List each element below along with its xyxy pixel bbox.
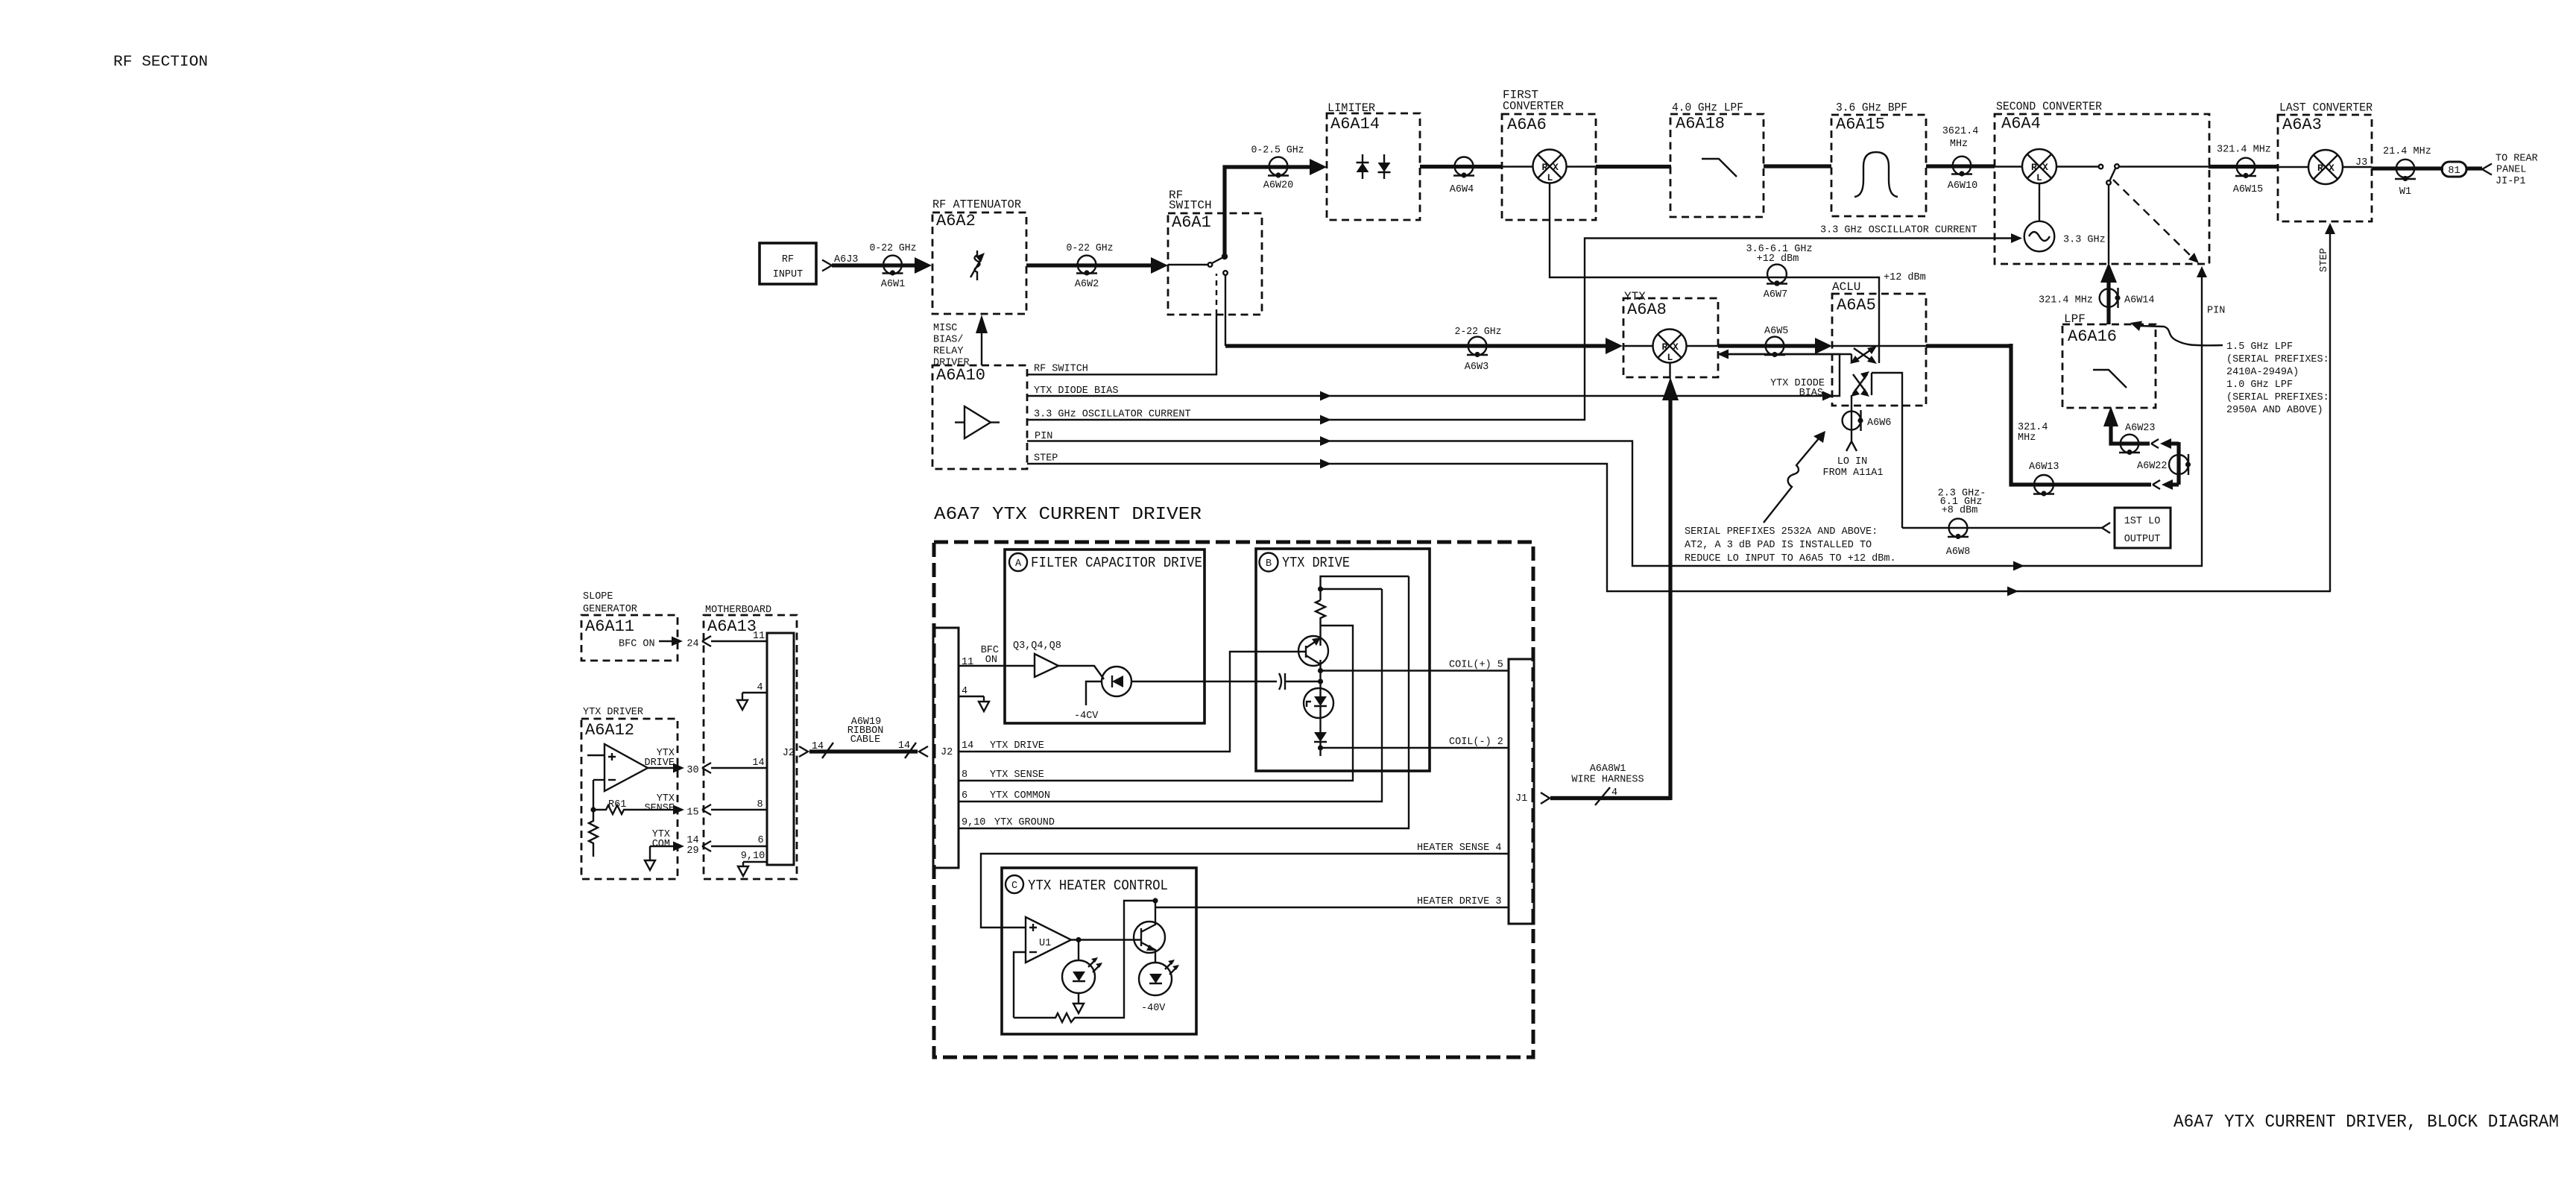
svg-text:6: 6 — [757, 835, 763, 846]
svg-text:(SERIAL PREFIXES:: (SERIAL PREFIXES: — [2226, 392, 2329, 403]
svg-text:A6W1: A6W1 — [881, 279, 905, 290]
svg-text:COM: COM — [652, 839, 670, 850]
resistor to ground stub — [589, 810, 598, 857]
wire through ACLU — [1832, 345, 1926, 347]
svg-text:R: R — [2031, 162, 2037, 173]
svg-text:YTX SENSE: YTX SENSE — [990, 769, 1044, 781]
limiter A6A14 — [1327, 101, 1420, 220]
svg-text:INPUT: INPUT — [773, 269, 804, 280]
svg-text:TO REAR: TO REAR — [2495, 154, 2538, 165]
wire RF input to A6A2 — [832, 263, 915, 267]
pin 6 YTX COMMON — [959, 589, 1382, 801]
svg-text:+12 dBm: +12 dBm — [1884, 272, 1926, 283]
svg-text:YTX DRIVE: YTX DRIVE — [1282, 555, 1350, 571]
svg-text:HEATER DRIVE 3: HEATER DRIVE 3 — [1417, 896, 1501, 907]
svg-text:14: 14 — [752, 758, 764, 769]
cable A6W14 — [2039, 288, 2155, 308]
first converter A6A6 — [1502, 89, 1596, 221]
svg-text:GENERATOR: GENERATOR — [583, 604, 637, 615]
wire 321.4 out of ACLU — [1926, 344, 2012, 347]
cable A6W4 — [1450, 157, 1474, 196]
svg-text:A6A4: A6A4 — [2001, 115, 2041, 133]
cable A6W23 — [2119, 423, 2156, 455]
arrow into A6A2 — [915, 257, 932, 274]
svg-text:W1: W1 — [2399, 186, 2411, 198]
svg-text:BIAS/: BIAS/ — [933, 335, 964, 346]
svg-text:AT2, A 3 dB PAD IS INSTALLED T: AT2, A 3 dB PAD IS INSTALLED TO — [1685, 540, 1872, 551]
svg-text:X: X — [1673, 341, 1679, 353]
svg-text:YTX DRIVER: YTX DRIVER — [583, 707, 643, 718]
pin 11 BFC ON — [959, 645, 1035, 668]
wire A6A3 to rear panel — [2372, 166, 2443, 170]
svg-text:RF: RF — [782, 254, 794, 265]
note serial prefixes 2532A — [1685, 526, 1896, 564]
wire YTX L port down to harness — [1550, 362, 1679, 799]
svg-text:A6W14: A6W14 — [2124, 295, 2155, 306]
cable A6W2 — [1075, 256, 1099, 290]
LPF A6A16 — [2062, 312, 2156, 408]
mixer last converter — [2278, 150, 2372, 184]
svg-text:321.4 MHz: 321.4 MHz — [2217, 145, 2271, 156]
connector J2 — [933, 628, 959, 868]
wire 321.4 MHz into A6A3 — [2209, 165, 2278, 169]
svg-text:30: 30 — [686, 765, 698, 776]
svg-text:PANEL: PANEL — [2496, 165, 2527, 176]
connector into 1st LO — [2102, 523, 2110, 533]
diode CR in circle — [1102, 667, 1131, 696]
pin 8 YTX SENSE — [959, 626, 1353, 781]
svg-text:ACLU: ACLU — [1832, 280, 1860, 294]
oscillator 3.3 GHz — [2024, 183, 2106, 251]
svg-text:15: 15 — [686, 807, 698, 819]
cable A6W7 — [1764, 265, 1787, 300]
LED indicator lower — [1062, 957, 1102, 1013]
svg-text:SWITCH: SWITCH — [1169, 199, 1212, 212]
svg-text:B: B — [1266, 558, 1272, 570]
svg-text:4: 4 — [962, 686, 967, 697]
svg-text:CABLE: CABLE — [850, 734, 881, 746]
svg-text:A6A7 YTX CURRENT DRIVER, BLOCK: A6A7 YTX CURRENT DRIVER, BLOCK DIAGRAM — [2173, 1112, 2559, 1133]
svg-text:PIN: PIN — [2207, 306, 2225, 317]
svg-text:-40V: -40V — [1141, 1003, 1166, 1014]
label MISC BIAS/RELAY DRIVER — [933, 323, 970, 369]
cable W1 — [2395, 160, 2416, 198]
last converter A6A3 — [2278, 101, 2373, 222]
svg-text:A6A5: A6A5 — [1837, 296, 1876, 315]
svg-text:9,10: 9,10 — [962, 817, 985, 828]
amplifier in A6A10 — [955, 406, 1000, 438]
leader squiggle to LPF — [2130, 321, 2223, 346]
signal YTX COM — [645, 829, 767, 870]
RF attenuator A6A2 — [932, 198, 1026, 315]
svg-text:A6A8W1: A6A8W1 — [1590, 763, 1626, 775]
svg-text:A6W15: A6W15 — [2233, 184, 2264, 195]
pin 14 YTX DRIVE — [959, 652, 1306, 752]
svg-text:BIAS: BIAS — [1799, 388, 1823, 399]
svg-text:3621.4: 3621.4 — [1942, 126, 1979, 137]
cable tag 81 — [2442, 162, 2466, 177]
svg-text:A6W6: A6W6 — [1867, 418, 1891, 429]
signal STEP — [1027, 223, 2335, 596]
svg-text:A: A — [1015, 558, 1022, 570]
1ST LO OUTPUT box — [2115, 508, 2171, 548]
amplifier Q3,Q4,Q8 — [1035, 654, 1058, 677]
cable A6W8 — [1946, 519, 1970, 558]
connector to rear panel — [2482, 164, 2492, 175]
svg-text:J1: J1 — [1515, 793, 1527, 804]
leader squiggle to A6W6 — [1764, 431, 1825, 523]
svg-text:Q3,Q4,Q8: Q3,Q4,Q8 — [1013, 640, 1061, 652]
svg-text:R: R — [2317, 163, 2323, 174]
svg-text:A6A18: A6A18 — [1676, 115, 1725, 133]
svg-text:+12 dBm: +12 dBm — [1757, 253, 1799, 265]
svg-text:+8 dBm: +8 dBm — [1942, 506, 1978, 517]
svg-text:X: X — [2042, 162, 2048, 173]
svg-text:A6W8: A6W8 — [1946, 547, 1970, 558]
3.6 GHz BPF A6A15 — [1831, 101, 1926, 217]
pin 4 ground — [737, 682, 767, 710]
svg-text:A6A13: A6A13 — [707, 617, 757, 636]
svg-text:OUTPUT: OUTPUT — [2124, 534, 2161, 545]
svg-text:4: 4 — [1611, 787, 1617, 799]
svg-text:A6W4: A6W4 — [1450, 184, 1474, 195]
svg-text:-4CV: -4CV — [1074, 711, 1099, 722]
slope generator A6A11 — [581, 591, 678, 661]
svg-text:YTX DRIVE: YTX DRIVE — [990, 740, 1044, 752]
svg-text:A6A7 YTX CURRENT DRIVER: A6A7 YTX CURRENT DRIVER — [934, 505, 1202, 525]
YTX driver A6A12 — [581, 707, 678, 879]
cable A6W13 — [2029, 462, 2059, 497]
svg-text:SENSE: SENSE — [644, 803, 675, 814]
svg-text:A6W22: A6W22 — [2137, 461, 2168, 472]
signal HEATER DRIVE 3 — [1155, 896, 1509, 907]
cable A6W20 — [1263, 157, 1294, 192]
diode CR B-block — [1314, 732, 1327, 756]
svg-text:0-22 GHz: 0-22 GHz — [1067, 243, 1114, 254]
svg-text:RF SWITCH: RF SWITCH — [1034, 364, 1088, 375]
cable A6W22 — [2137, 454, 2191, 475]
svg-text:A6A14: A6A14 — [1330, 115, 1380, 133]
wire A6A15 to A6A4 — [1926, 164, 1995, 168]
node capacitor join — [1318, 671, 1323, 689]
second converter A6A4 — [1995, 100, 2209, 264]
connector A6J3 — [822, 254, 858, 271]
cable A6W5 — [1764, 326, 1788, 357]
wire LO IN through A6W6 — [1846, 395, 1857, 451]
svg-text:A6A1: A6A1 — [1172, 213, 1211, 232]
wire YTX to ACLU — [1718, 344, 1816, 347]
RF switch A6A1 — [1168, 189, 1262, 315]
wire A6A10 up into A6A2 — [976, 315, 988, 365]
svg-text:YTX HEATER CONTROL: YTX HEATER CONTROL — [1028, 878, 1168, 894]
pin 9,10 ground — [738, 851, 767, 876]
attenuator pad AT2 lower — [1851, 371, 1872, 397]
svg-text:A6W5: A6W5 — [1764, 326, 1788, 337]
svg-text:X: X — [1553, 162, 1559, 173]
wire A6A2 to A6A1 — [1026, 263, 1151, 267]
wire A6A14 to A6A6 — [1420, 165, 1502, 169]
svg-text:RF ATTENUATOR: RF ATTENUATOR — [932, 198, 1021, 212]
signal YTX DIODE BIAS — [1027, 350, 1840, 401]
svg-text:MHz: MHz — [2018, 432, 2036, 444]
signal PIN — [1027, 266, 2225, 571]
connector pair upper — [2151, 438, 2179, 449]
svg-text:3.3 GHz: 3.3 GHz — [2063, 235, 2106, 246]
diode CR1 up — [1357, 154, 1369, 179]
svg-text:9,10: 9,10 — [741, 851, 765, 862]
transistor heater driver — [1134, 901, 1165, 963]
svg-text:A6W13: A6W13 — [2029, 462, 2059, 473]
svg-text:4: 4 — [757, 682, 763, 693]
motherboard A6A13 — [704, 605, 797, 879]
relay driver A6A10 — [932, 365, 1027, 469]
svg-text:FILTER CAPACITOR DRIVE: FILTER CAPACITOR DRIVE — [1031, 555, 1202, 571]
wire 321.4 MHz from ACLU down through A6W13 — [2011, 344, 2151, 485]
svg-text:X: X — [2329, 163, 2334, 174]
svg-text:1.5 GHz LPF: 1.5 GHz LPF — [2226, 341, 2293, 353]
svg-text:WIRE HARNESS: WIRE HARNESS — [1571, 775, 1644, 786]
svg-text:A6A3: A6A3 — [2282, 116, 2322, 134]
feedback network U1 — [1014, 898, 1158, 1022]
wire A6A6 to A6A18 — [1596, 165, 1671, 169]
RF INPUT box — [760, 243, 816, 284]
pin 4 ground — [959, 686, 989, 711]
transistor Q B-block — [1298, 635, 1328, 671]
arrow into A6A14 — [1310, 159, 1327, 175]
cable A6W1 — [881, 256, 905, 290]
diode CR2 down — [1378, 154, 1391, 179]
svg-text:FROM A11A1: FROM A11A1 — [1822, 467, 1883, 479]
wire feedback top — [1321, 576, 1409, 600]
svg-text:321.4 MHz: 321.4 MHz — [2039, 295, 2093, 306]
label TO REAR PANEL J1-P1 — [2495, 154, 2538, 188]
wire A6W22 vertical — [2176, 442, 2180, 485]
signal RF SWITCH — [1027, 274, 1216, 375]
svg-text:MISC: MISC — [933, 323, 957, 334]
current limiter diode circle — [1304, 688, 1333, 732]
cable A6W6 — [1843, 410, 1892, 431]
svg-text:(SERIAL PREFIXES:: (SERIAL PREFIXES: — [2226, 354, 2329, 365]
connector J2 motherboard — [783, 746, 808, 759]
svg-text:SERIAL PREFIXES 2532A AND ABOV: SERIAL PREFIXES 2532A AND ABOVE: — [1685, 526, 1878, 538]
wire A6A1 to YTX — [1225, 344, 1608, 347]
svg-text:STEP: STEP — [2319, 248, 2330, 272]
attenuator symbol — [970, 251, 985, 280]
svg-text:321.4: 321.4 — [2018, 422, 2048, 433]
svg-text:8: 8 — [757, 799, 763, 810]
svg-text:A6W2: A6W2 — [1075, 279, 1099, 290]
bias -4CV — [1074, 681, 1102, 722]
cable A6W3 — [1465, 337, 1489, 373]
svg-text:A6A11: A6A11 — [585, 617, 634, 636]
node COIL(-) — [1318, 737, 1509, 751]
svg-text:3.3 GHz OSCILLATOR CURRENT: 3.3 GHz OSCILLATOR CURRENT — [1820, 225, 1977, 236]
wire U1 output — [1071, 937, 1141, 960]
svg-text:BFC ON: BFC ON — [619, 639, 655, 650]
switch contacts and arm — [1168, 253, 1228, 346]
arrow into A6A8 — [1606, 338, 1623, 354]
svg-text:RF SECTION: RF SECTION — [113, 54, 208, 71]
block A FILTER CAPACITOR DRIVE — [1005, 549, 1205, 723]
attenuator pad AT upper — [1850, 346, 1877, 364]
svg-text:0-22 GHz: 0-22 GHz — [870, 243, 917, 254]
svg-text:YTX COMMON: YTX COMMON — [990, 790, 1050, 801]
svg-text:SECOND CONVERTER: SECOND CONVERTER — [1996, 100, 2102, 113]
svg-text:A6W10: A6W10 — [1948, 180, 1978, 192]
capacitor C — [1279, 673, 1321, 690]
wire harness A6A8W1 — [1541, 763, 1670, 805]
svg-text:21.4 MHz: 21.4 MHz — [2383, 146, 2431, 157]
resistor R in B — [1316, 600, 1325, 635]
connector J1 — [1509, 659, 1534, 924]
svg-text:COIL(-) 2: COIL(-) 2 — [1449, 737, 1503, 748]
svg-text:C: C — [1011, 881, 1017, 892]
label LO IN FROM A11A1 — [1822, 456, 1883, 479]
svg-text:A6A10: A6A10 — [936, 366, 985, 385]
svg-text:A6W23: A6W23 — [2125, 423, 2156, 434]
signal HEATER SENSE 4 — [981, 843, 1509, 928]
svg-text:1.0 GHz LPF: 1.0 GHz LPF — [2226, 380, 2293, 391]
svg-text:CONVERTER: CONVERTER — [1503, 100, 1564, 113]
signal YTX DRIVE out — [644, 748, 767, 776]
cable A6W15 — [2233, 158, 2264, 195]
svg-text:A6A16: A6A16 — [2068, 327, 2117, 346]
svg-text:14: 14 — [812, 741, 824, 752]
svg-text:A6A8: A6A8 — [1627, 300, 1667, 319]
wire 2.3 GHz to 1ST LO OUTPUT — [1902, 527, 2102, 529]
svg-text:J2: J2 — [783, 748, 795, 759]
wire LO to YTX mixer — [1720, 354, 1851, 363]
svg-text:MHz: MHz — [1950, 139, 1968, 150]
svg-text:HEATER SENSE 4: HEATER SENSE 4 — [1417, 843, 1501, 854]
op-amp U1 — [1026, 917, 1071, 963]
svg-text:4.0 GHz LPF: 4.0 GHz LPF — [1672, 101, 1743, 115]
svg-text:L: L — [1667, 352, 1673, 363]
svg-text:J3: J3 — [2355, 157, 2367, 169]
signal BFC ON — [619, 631, 767, 650]
svg-text:A6A6: A6A6 — [1507, 116, 1547, 134]
op-amp A6A12 — [587, 744, 648, 791]
svg-text:24: 24 — [686, 639, 698, 650]
arrow into A6A1 — [1151, 257, 1168, 274]
svg-text:U1: U1 — [1039, 938, 1051, 949]
svg-text:2950A AND ABOVE): 2950A AND ABOVE) — [2226, 405, 2323, 416]
svg-text:A6W3: A6W3 — [1465, 362, 1489, 373]
svg-text:J2: J2 — [941, 747, 953, 758]
wire into LPF bottom from A6W23 — [2103, 406, 2150, 444]
wire switch up through A6W20 to limiter — [1225, 167, 1310, 258]
YTX mixer A6A8 — [1623, 290, 1718, 377]
node COIL(+) — [1318, 660, 1509, 674]
svg-text:A6A12: A6A12 — [585, 721, 634, 740]
cable A6W10 — [1948, 157, 1978, 192]
wire LPF up through A6W14 into A6A4 — [2100, 185, 2117, 324]
connector pair lower — [2153, 479, 2179, 490]
block B YTX DRIVE — [1256, 549, 1430, 771]
svg-text:LAST CONVERTER: LAST CONVERTER — [2279, 101, 2373, 115]
svg-text:14: 14 — [898, 740, 910, 752]
board outline A6A7 — [934, 542, 1533, 1057]
note 1.5 GHz LPF serial prefixes — [2226, 341, 2329, 416]
svg-text:REDUCE LO INPUT TO A6A5 TO +12: REDUCE LO INPUT TO A6A5 TO +12 dBm. — [1685, 553, 1896, 564]
svg-text:SLOPE: SLOPE — [583, 591, 613, 602]
svg-text:RELAY: RELAY — [933, 346, 964, 357]
svg-text:81: 81 — [2448, 166, 2460, 177]
signal 3.3 GHz OSCILLATOR CURRENT — [1027, 225, 2022, 425]
ACLU A6A5 — [1832, 280, 1926, 406]
svg-text:0-2.5 GHz: 0-2.5 GHz — [1251, 145, 1304, 157]
ribbon cable A6W19 — [809, 717, 928, 758]
wire amp to diode — [1058, 666, 1104, 679]
svg-text:8: 8 — [962, 769, 967, 781]
mixer U1 first converter — [1502, 150, 1596, 184]
block C YTX HEATER CONTROL — [1002, 868, 1196, 1034]
svg-text:ON: ON — [985, 655, 997, 666]
svg-text:MOTHERBOARD: MOTHERBOARD — [705, 605, 771, 616]
mixer second converter — [1995, 149, 2056, 183]
switch in A6A4 — [2056, 164, 2209, 185]
svg-text:2410A-2949A): 2410A-2949A) — [2226, 367, 2299, 378]
svg-text:STEP: STEP — [1034, 453, 1058, 464]
svg-text:6: 6 — [962, 790, 967, 801]
svg-text:LO IN: LO IN — [1837, 456, 1868, 467]
svg-text:1ST LO: 1ST LO — [2124, 516, 2161, 527]
svg-text:3.6 GHz BPF: 3.6 GHz BPF — [1836, 101, 1907, 115]
svg-text:COIL(+) 5: COIL(+) 5 — [1449, 660, 1503, 671]
svg-text:YTX DIODE BIAS: YTX DIODE BIAS — [1034, 385, 1118, 397]
4.0 GHz LPF A6A18 — [1670, 101, 1764, 218]
svg-text:14: 14 — [686, 835, 698, 846]
svg-text:JI-P1: JI-P1 — [2495, 176, 2526, 187]
resistor R61 + signal YTX SENSE — [590, 780, 767, 819]
svg-text:A6A2: A6A2 — [936, 212, 976, 230]
mixer YTX — [1623, 330, 1718, 364]
wire A6A18 to A6A15 — [1764, 164, 1831, 168]
svg-text:R: R — [1662, 341, 1668, 353]
svg-text:29: 29 — [686, 845, 698, 857]
wire L port of first converter through A6W7 — [1550, 183, 1879, 363]
svg-text:A6A15: A6A15 — [1836, 116, 1885, 134]
svg-text:L: L — [2036, 172, 2042, 183]
LED -40V — [1139, 960, 1179, 1014]
node common tap — [1318, 586, 1382, 591]
svg-text:14: 14 — [962, 740, 973, 752]
pin 9,10 YTX GROUND — [959, 576, 1409, 828]
svg-text:R: R — [1542, 162, 1548, 173]
svg-text:L: L — [1547, 172, 1553, 183]
arrow into A6A5 — [1815, 338, 1832, 354]
wire diode to capacitor — [1131, 681, 1277, 682]
wire pad to 1st LO line — [1872, 373, 1902, 528]
svg-text:A6W7: A6W7 — [1764, 289, 1787, 300]
svg-text:DRIVE: DRIVE — [644, 758, 675, 769]
svg-text:YTX GROUND: YTX GROUND — [994, 817, 1055, 828]
svg-text:3.3 GHz OSCILLATOR CURRENT: 3.3 GHz OSCILLATOR CURRENT — [1034, 409, 1191, 421]
svg-text:A6W20: A6W20 — [1263, 180, 1294, 192]
dashed diagonal alternate switch path — [2113, 180, 2199, 263]
